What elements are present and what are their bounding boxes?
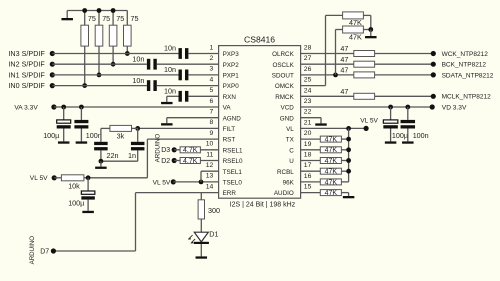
ground under C11 — [385, 141, 397, 143]
svg-text:SDATA_NTP8212: SDATA_NTP8212 — [442, 72, 494, 79]
junction VA cap2 — [79, 105, 84, 110]
svg-text:VL 5V: VL 5V — [30, 175, 48, 182]
junction 47K bus tap pin 18 — [346, 158, 351, 163]
svg-text:3k: 3k — [117, 131, 125, 140]
svg-text:OLRCK: OLRCK — [272, 51, 294, 58]
svg-text:75: 75 — [116, 14, 124, 23]
ground under C6 — [58, 141, 69, 143]
svg-text:17: 17 — [304, 162, 312, 169]
svg-text:24: 24 — [304, 87, 312, 94]
resistor R19 47K boxed pull on pin 17 — [301, 170, 321, 172]
junction filter ground node — [99, 159, 104, 164]
capacitor C6 100u on VA rail — [63, 107, 65, 120]
svg-text:D1: D1 — [209, 229, 218, 238]
capacitor C5 10n at RXN — [179, 91, 182, 102]
wire R13 to MCLK_NTP8212 — [375, 95, 434, 97]
svg-text:26: 26 — [304, 66, 312, 73]
svg-text:10n: 10n — [164, 87, 176, 96]
wire AGND from pin 7 — [167, 117, 219, 119]
svg-text:AUDIO: AUDIO — [274, 190, 294, 197]
svg-text:22: 22 — [304, 109, 312, 116]
svg-text:100n: 100n — [413, 131, 429, 140]
svg-text:7: 7 — [210, 109, 214, 116]
junction FILT node — [135, 126, 140, 131]
ground under 47K pair — [370, 30, 372, 37]
ground at RXN — [166, 96, 168, 102]
svg-text:14: 14 — [206, 183, 214, 190]
svg-text:PXP0: PXP0 — [223, 83, 240, 90]
wire TSEL tie vertical — [200, 171, 202, 182]
svg-text:IN3 S/PDIF: IN3 S/PDIF — [8, 49, 45, 58]
svg-text:TSEL0: TSEL0 — [223, 180, 243, 187]
capacitor C7 100n on VA rail — [80, 107, 82, 120]
junction top of R2 — [97, 8, 102, 13]
resistor R1 75 ohm — [84, 11, 86, 26]
svg-text:75: 75 — [131, 14, 139, 23]
svg-text:47: 47 — [340, 66, 348, 75]
junction 47K bus tap pin 20 — [346, 137, 351, 142]
svg-text:C: C — [289, 147, 294, 154]
svg-text:20: 20 — [304, 130, 312, 137]
svg-text:16: 16 — [304, 173, 312, 180]
svg-text:10n: 10n — [164, 65, 176, 74]
svg-text:10n: 10n — [132, 76, 144, 85]
svg-text:AGND: AGND — [223, 115, 242, 122]
IC U1 CS8416 digital audio receiver body — [219, 46, 301, 199]
svg-text:10: 10 — [206, 141, 214, 148]
capacitor C9 1n — [137, 128, 139, 141]
svg-text:47K: 47K — [325, 147, 338, 154]
svg-text:GND: GND — [280, 115, 294, 122]
svg-text:75: 75 — [102, 14, 110, 23]
capacitor C12 100n on VD rail — [407, 107, 409, 120]
node VD 3.3V terminal — [430, 104, 435, 109]
svg-text:21: 21 — [304, 119, 312, 126]
svg-text:47K: 47K — [325, 158, 338, 165]
resistor R13 47 ohm — [301, 95, 354, 97]
ground at pin 22 — [320, 118, 322, 124]
svg-text:10k: 10k — [68, 181, 80, 190]
resistor R8 4.7K boxed — [174, 160, 180, 162]
wire RST from pin 9 — [147, 138, 218, 140]
svg-text:RMCK: RMCK — [275, 94, 294, 101]
svg-text:VL 5V: VL 5V — [360, 118, 378, 125]
svg-text:47K: 47K — [325, 179, 338, 186]
resistor R10 47 ohm — [301, 53, 354, 55]
node MCLK_NTP8212 terminal — [431, 94, 436, 99]
wire VA rail to pin 6 — [54, 106, 219, 108]
svg-text:100µ: 100µ — [68, 199, 84, 208]
capacitor C10 100u on RST — [87, 178, 89, 191]
svg-text:2: 2 — [210, 55, 214, 62]
wire LED cathode to ground — [200, 244, 202, 256]
wire R12 to SDATA_NTP8212 — [375, 74, 434, 76]
wire cap to pin 1 — [188, 53, 218, 55]
wire VCD pin 23 to VD 3.3V — [301, 106, 433, 108]
junction RST node — [86, 175, 91, 180]
resistor R9 300 — [200, 193, 202, 200]
svg-text:4.7K: 4.7K — [183, 158, 198, 165]
wire OMCK to R14 — [301, 85, 326, 87]
svg-text:ARDUINO: ARDUINO — [29, 236, 36, 265]
ground filter network — [100, 161, 102, 166]
wire VL5V to TSEL0 pin 13 — [173, 181, 218, 183]
wire R10 to WCK_NTP8212 — [375, 53, 434, 55]
svg-text:47: 47 — [340, 44, 348, 53]
junction 47K bus tap pin 17 — [346, 169, 351, 174]
svg-text:8: 8 — [210, 119, 214, 126]
svg-text:4.7K: 4.7K — [183, 147, 198, 154]
svg-text:100µ: 100µ — [43, 131, 59, 140]
svg-text:3: 3 — [210, 66, 214, 73]
wire 47K bus vertical — [348, 128, 350, 182]
svg-text:VA: VA — [223, 105, 232, 112]
wire top rail — [67, 10, 127, 12]
resistor R11 47 ohm — [301, 63, 354, 65]
svg-text:47K: 47K — [325, 169, 338, 176]
svg-text:10n: 10n — [164, 44, 176, 53]
wire cap to pin 3 — [188, 74, 218, 76]
svg-text:RCBL: RCBL — [277, 169, 294, 176]
junction 47K ground node — [368, 27, 373, 32]
ground at AGND — [166, 118, 168, 124]
svg-text:TX: TX — [286, 137, 295, 144]
junction bottom of R3 — [111, 62, 116, 67]
capacitor C1 10n — [179, 48, 182, 59]
capacitor C8 22n — [100, 128, 102, 141]
ground under C12 — [402, 141, 414, 143]
svg-text:D7: D7 — [40, 249, 49, 256]
svg-text:9: 9 — [210, 130, 214, 137]
svg-text:VD 3.3V: VD 3.3V — [442, 104, 467, 111]
wire cap to pin 5 — [188, 95, 218, 97]
junction VA cap1 — [61, 105, 66, 110]
svg-text:11: 11 — [206, 151, 213, 158]
svg-text:47K: 47K — [325, 137, 338, 144]
wire GND pin 22 — [301, 117, 321, 119]
svg-text:FILT: FILT — [223, 126, 236, 133]
svg-text:22n: 22n — [107, 151, 119, 160]
wire ERR from pin 14 — [136, 192, 219, 194]
svg-text:15: 15 — [304, 184, 312, 191]
svg-text:75: 75 — [88, 14, 96, 23]
svg-text:12: 12 — [206, 162, 214, 169]
junction VD cap1 — [388, 105, 393, 110]
capacitor C4 10n — [147, 80, 150, 91]
svg-text:IN2 S/PDIF: IN2 S/PDIF — [8, 60, 45, 69]
ground under AUDIO 47K — [348, 193, 350, 196]
resistor R18 47K boxed pull on pin 18 — [301, 160, 321, 162]
svg-text:WCK_NTP8212: WCK_NTP8212 — [442, 51, 489, 58]
svg-text:U: U — [289, 158, 294, 165]
svg-text:25: 25 — [304, 77, 312, 84]
wire IN3 S/PDIF to coupling cap — [52, 53, 178, 55]
LED D1 — [194, 232, 208, 242]
resistor R7 4.7K boxed — [174, 149, 180, 151]
svg-text:IN0 S/PDIF: IN0 S/PDIF — [8, 81, 45, 90]
svg-text:CS8416: CS8416 — [244, 35, 275, 45]
wire cap to pin 4 — [157, 85, 219, 87]
resistor R14 47K — [343, 12, 364, 19]
wire IN2 S/PDIF to coupling cap — [52, 63, 147, 65]
svg-text:100µ: 100µ — [392, 131, 408, 140]
svg-text:BCK_NTP8212: BCK_NTP8212 — [442, 62, 487, 69]
svg-text:47K: 47K — [349, 32, 362, 41]
resistor R2 75 ohm — [98, 11, 100, 26]
node BCK_NTP8212 terminal — [431, 62, 436, 67]
svg-text:VA 3.3V: VA 3.3V — [14, 104, 38, 111]
node WCK_NTP8212 terminal — [431, 51, 436, 56]
svg-text:300: 300 — [208, 206, 220, 215]
svg-text:D2: D2 — [161, 158, 170, 165]
ground under C10 — [82, 211, 94, 213]
ground under C7 — [76, 141, 88, 143]
svg-text:MCLK_NTP8212: MCLK_NTP8212 — [442, 94, 492, 101]
junction bottom of R1 — [82, 83, 87, 88]
svg-text:18: 18 — [304, 152, 312, 159]
svg-text:5: 5 — [210, 87, 214, 94]
capacitor C2 10n — [147, 59, 150, 70]
svg-text:27: 27 — [304, 55, 312, 62]
resistor R6 10k — [54, 177, 61, 179]
wire AUDIO 47K to ground — [341, 192, 348, 194]
junction top of R1 — [82, 8, 87, 13]
wire FILT from pin 8 — [138, 127, 219, 129]
resistor R3 75 ohm — [112, 11, 114, 26]
svg-text:6: 6 — [210, 98, 214, 105]
ground under LED — [196, 256, 208, 258]
resistor R5 3k — [132, 127, 138, 129]
svg-text:IN1 S/PDIF: IN1 S/PDIF — [8, 70, 45, 79]
svg-text:47K: 47K — [325, 190, 338, 197]
svg-text:I2S | 24 Bit | 198 kHz: I2S | 24 Bit | 198 kHz — [230, 202, 296, 209]
svg-text:D3: D3 — [161, 147, 170, 154]
junction 47K bus top — [346, 126, 351, 131]
resistor R15 47K — [343, 26, 364, 33]
svg-text:RSEL1: RSEL1 — [223, 147, 243, 154]
svg-text:10n: 10n — [132, 54, 144, 63]
svg-text:OSCLK: OSCLK — [272, 62, 294, 69]
junction bottom of R4 — [125, 51, 130, 56]
wire IN1 S/PDIF to coupling cap — [52, 74, 178, 76]
resistor R12 47 ohm — [301, 74, 354, 76]
ground top-left — [66, 11, 68, 19]
svg-text:PXP3: PXP3 — [223, 51, 240, 58]
resistor R21 47K boxed pull on pin 15 — [301, 192, 321, 194]
svg-text:1: 1 — [210, 44, 214, 51]
svg-text:SDOUT: SDOUT — [272, 73, 294, 80]
resistor R16 47K boxed pull on pin 20 — [301, 138, 321, 140]
wire VL pin 21 to VL 5V — [301, 127, 367, 129]
wire SDOUT to R15 — [335, 30, 337, 75]
resistor R17 47K boxed pull on pin 19 — [301, 149, 321, 151]
capacitor C3 10n — [179, 70, 182, 81]
junction top of R3 — [111, 8, 116, 13]
svg-text:RXN: RXN — [223, 94, 237, 101]
wire IN0 S/PDIF to coupling cap — [52, 85, 147, 87]
wire R8 to pin 11 — [200, 160, 218, 162]
capacitor C11 100u on VD rail — [390, 107, 392, 120]
junction VD cap2 — [405, 105, 410, 110]
wire to TSEL1 pin 12 — [201, 170, 219, 172]
svg-text:1n: 1n — [128, 151, 136, 160]
svg-text:ERR: ERR — [223, 190, 237, 197]
junction bottom of R2 — [97, 73, 102, 78]
wire RXN ground stub — [167, 95, 179, 97]
node SDATA_NTP8212 terminal — [431, 72, 436, 77]
wire R7 to pin 10 — [200, 149, 218, 151]
svg-text:PXP1: PXP1 — [223, 73, 240, 80]
svg-text:28: 28 — [304, 45, 312, 52]
svg-text:23: 23 — [304, 98, 312, 105]
svg-text:VL 5V: VL 5V — [153, 179, 171, 186]
svg-text:100n: 100n — [86, 131, 102, 140]
svg-text:VL: VL — [286, 126, 294, 133]
svg-text:47: 47 — [340, 87, 348, 96]
svg-text:13: 13 — [206, 173, 214, 180]
node VL 5V terminal right — [364, 126, 369, 131]
resistor R4 75 ohm — [126, 11, 128, 26]
svg-text:PXP2: PXP2 — [223, 62, 240, 69]
wire R11 to BCK_NTP8212 — [375, 63, 434, 65]
junction SDOUT tap — [333, 73, 338, 78]
svg-text:VCD: VCD — [281, 105, 295, 112]
svg-text:RST: RST — [223, 137, 236, 144]
wire 96K 47K to bus bottom — [341, 181, 348, 183]
svg-text:TSEL1: TSEL1 — [223, 169, 243, 176]
svg-text:4: 4 — [210, 76, 214, 83]
svg-text:RSEL0: RSEL0 — [223, 158, 243, 165]
wire cap bottoms join — [101, 160, 138, 162]
junction TSEL tie — [199, 180, 204, 185]
wire cap to pin 2 — [157, 63, 219, 65]
svg-text:96K: 96K — [283, 180, 295, 187]
resistor R20 47K boxed pull on pin 16 — [301, 181, 321, 183]
junction 47K bus tap pin 19 — [346, 147, 351, 152]
svg-text:47: 47 — [340, 55, 348, 64]
svg-text:19: 19 — [304, 141, 312, 148]
svg-text:OMCK: OMCK — [275, 83, 295, 90]
